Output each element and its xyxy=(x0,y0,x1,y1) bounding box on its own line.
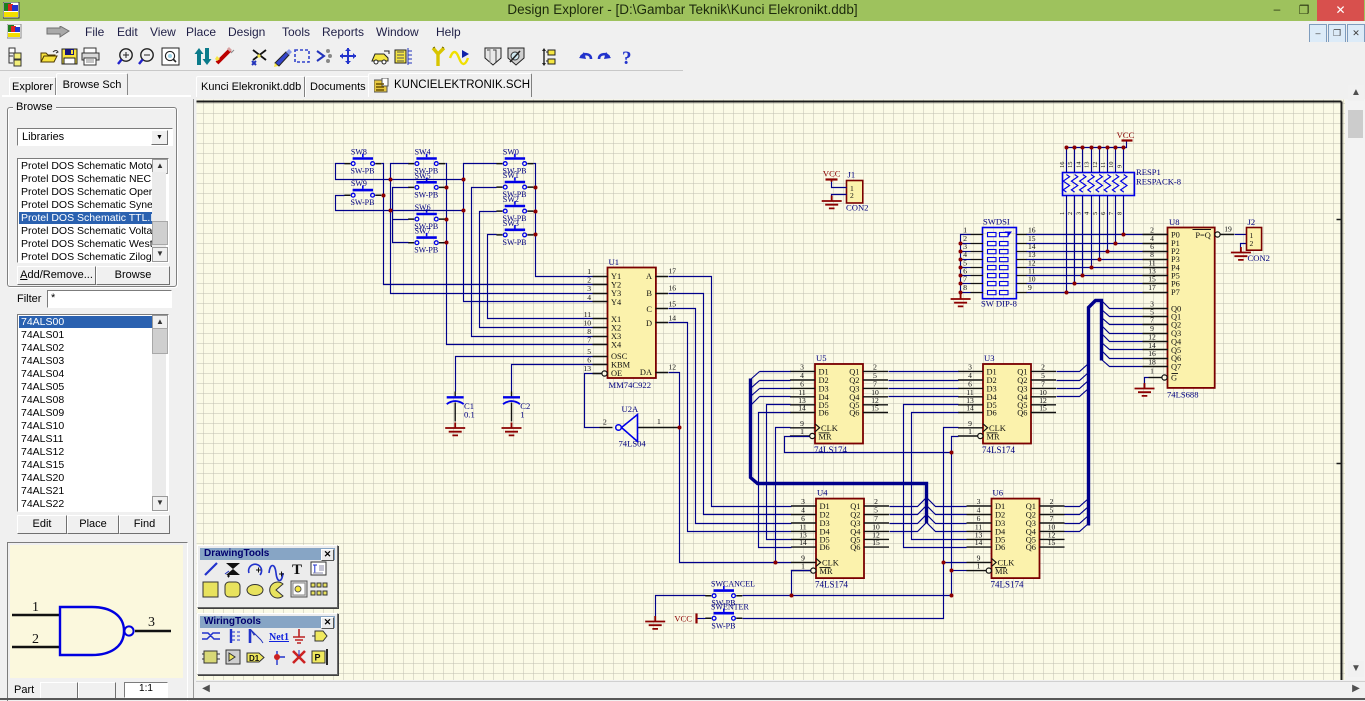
svg-text:8: 8 xyxy=(963,283,967,292)
wire DIP pin3 stub xyxy=(961,251,971,253)
switch SW8 xyxy=(344,148,381,176)
junction P1 pullup xyxy=(1114,242,1118,246)
svg-text:U8: U8 xyxy=(1169,217,1180,227)
svg-text:VCC: VCC xyxy=(674,614,692,624)
wire SW8/SW9 right column down to Y2 xyxy=(382,164,593,285)
sheet border right xyxy=(1341,102,1343,681)
svg-text:RESP1: RESP1 xyxy=(1136,167,1161,177)
wire U5.Q4 to U3.D4 xyxy=(889,396,959,398)
switch SW2 xyxy=(496,195,533,223)
junction P4 pullup xyxy=(1090,266,1094,270)
switch SW3 xyxy=(496,219,533,247)
register U4 74LS174 xyxy=(791,488,889,590)
svg-text:12: 12 xyxy=(1092,162,1099,169)
junction rail pin12 xyxy=(1098,146,1102,150)
wire U3.Q4 to bus xyxy=(1057,389,1089,397)
svg-text:1: 1 xyxy=(657,417,661,426)
keypad encoder U1 MM74C922 xyxy=(583,257,676,390)
svg-text:J2: J2 xyxy=(1248,217,1256,227)
wire RESP1 pin6 down to P2 xyxy=(1107,196,1109,252)
wire RESP1 pin15 to rail xyxy=(1074,148,1076,173)
svg-text:8: 8 xyxy=(1116,212,1123,215)
wire bus entry to U8.Q1 xyxy=(1102,310,1143,317)
wire SWCANCEL left to ground xyxy=(656,596,706,621)
svg-text:14: 14 xyxy=(669,313,677,322)
wire RESP1 pin1 down to P7 xyxy=(1066,196,1068,293)
junction SW2 right xyxy=(534,210,538,214)
svg-text:2: 2 xyxy=(603,417,607,426)
wire U3.Q1 to bus xyxy=(1057,364,1089,372)
switch SW7 xyxy=(408,227,445,255)
switch SW4 xyxy=(408,148,445,176)
svg-text:2: 2 xyxy=(1250,239,1254,248)
wire U8 P=Q to J2 pin1 xyxy=(1235,234,1247,236)
svg-text:U5: U5 xyxy=(816,353,827,363)
junction P5 pullup xyxy=(1081,274,1085,278)
svg-text:SW1: SW1 xyxy=(503,171,519,180)
capacitor C2 xyxy=(503,392,530,422)
component list xyxy=(17,314,169,512)
wire SW3 left down to X1 xyxy=(488,235,593,319)
switch SWCANCEL xyxy=(705,580,755,608)
wire SW1 right stub xyxy=(534,187,536,189)
sheet border top xyxy=(197,101,1342,103)
wire SW1 left down to X3 xyxy=(472,188,593,337)
svg-text:A: A xyxy=(646,272,652,281)
svg-text:13: 13 xyxy=(1084,162,1091,169)
wire SW6 right stub xyxy=(446,219,447,221)
junction DIP pin8 xyxy=(959,291,963,295)
svg-text:MM74C922: MM74C922 xyxy=(609,380,652,390)
wire U8.G to ground xyxy=(1145,378,1149,388)
wire U3.Q3 to bus xyxy=(1057,381,1089,389)
svg-text:X4: X4 xyxy=(611,341,622,350)
svg-text:2: 2 xyxy=(850,191,854,200)
junction DIP pin3 xyxy=(959,250,963,254)
svg-text:17: 17 xyxy=(669,267,677,276)
wire J2 pin2 to ground xyxy=(1241,244,1247,252)
svg-text:9: 9 xyxy=(1116,165,1123,168)
wire U1.DA down to U4.CLK rail xyxy=(669,373,792,563)
svg-text:SWENTER: SWENTER xyxy=(711,603,749,612)
power port VCC at SWENTER xyxy=(674,614,696,624)
svg-text:U4: U4 xyxy=(817,488,828,498)
svg-text:?: ? xyxy=(622,48,632,69)
wire SW5 right stub xyxy=(446,187,447,189)
switch SW9 xyxy=(344,179,381,207)
wire J1 pin2 to ground xyxy=(832,195,847,200)
junction U6.MR on U3 MR column xyxy=(950,569,954,573)
junction P0 pullup xyxy=(1122,233,1126,237)
wire U5.D5 to U4.D5 xyxy=(767,405,792,540)
wire OE loop to U2A input xyxy=(585,374,602,428)
svg-text:74LS688: 74LS688 xyxy=(1167,390,1199,400)
svg-text:SW4: SW4 xyxy=(415,148,431,157)
svg-text:15: 15 xyxy=(1067,162,1074,169)
ground below C2 xyxy=(502,423,522,436)
svg-text:19: 19 xyxy=(1224,225,1232,234)
wire P0 net DIP to U8 xyxy=(1027,234,1143,236)
svg-text:U6: U6 xyxy=(993,488,1004,498)
junction U4.MR on SWCANCEL rail xyxy=(790,594,794,598)
ground below J1 xyxy=(822,196,842,209)
junction U6.CLK on SWENTER column xyxy=(942,561,946,565)
switch SW5 xyxy=(408,171,445,199)
wire RESP1 pin2 down to P6 xyxy=(1074,196,1076,284)
switch SW0 xyxy=(496,148,533,176)
svg-text:16: 16 xyxy=(669,284,677,293)
wire DIP pin2 stub xyxy=(961,243,971,245)
svg-text:CON2: CON2 xyxy=(1248,253,1270,263)
wire bus entry to U8.Q3 xyxy=(1102,326,1143,334)
ground below J2 xyxy=(1231,247,1251,260)
svg-text:P: P xyxy=(315,653,321,663)
junction P3 pullup xyxy=(1098,258,1102,262)
wire U4.Q2 to bus chevron to U6.D2 xyxy=(890,506,967,515)
svg-text:RESPACK-8: RESPACK-8 xyxy=(1136,177,1181,187)
wire DIP common to ground xyxy=(961,235,971,298)
svg-text:0.1: 0.1 xyxy=(464,410,475,420)
wire bus entry to U8.Q5 xyxy=(1102,343,1143,350)
wire DIP pin5 stub xyxy=(961,267,971,269)
svg-text:SW0: SW0 xyxy=(503,148,519,157)
wire U4.Q1 to bus chevron to U6.D1 xyxy=(890,498,967,507)
switch SW1 xyxy=(496,171,533,199)
svg-text:SW8: SW8 xyxy=(351,148,367,157)
wire P3 net xyxy=(1027,259,1143,261)
junction SW9 right xyxy=(382,194,386,198)
wire U1.C down to U4.D3 xyxy=(669,309,792,524)
junction rail1-Y3 xyxy=(389,178,393,182)
svg-text:SW9: SW9 xyxy=(351,179,367,188)
svg-text:Y4: Y4 xyxy=(611,298,622,307)
wire P7 net xyxy=(1027,292,1143,294)
wire U5.CLK branch xyxy=(776,428,791,563)
wire bus entry to U8.Q7 xyxy=(1102,360,1143,367)
wire SW0 right column down to Y1 xyxy=(534,164,593,277)
wire RESP1 pin7 down to P1 xyxy=(1115,196,1117,244)
wire bus entry to U8.Q4 xyxy=(1102,334,1143,342)
register U3 74LS174 xyxy=(958,353,1056,455)
wire RESP1 pin11 to rail xyxy=(1107,148,1109,173)
wire U4.Q3 to bus chevron to U6.D3 xyxy=(890,515,967,524)
wire DIP pin4 stub xyxy=(961,259,971,261)
svg-text:SW DIP-8: SW DIP-8 xyxy=(981,299,1017,309)
Libraries combo xyxy=(17,128,173,146)
junction rail pin16 xyxy=(1065,146,1069,150)
wire P5 net xyxy=(1027,275,1143,277)
svg-text:U1: U1 xyxy=(609,257,620,267)
wire U5.Q3 to U3.D3 xyxy=(889,388,959,390)
bus entry U5.D1 xyxy=(751,372,760,380)
junction DIP pin5 xyxy=(959,266,963,270)
svg-text:D1: D1 xyxy=(249,654,260,663)
wire U1.A down to U4.D1 xyxy=(669,277,792,507)
wire VCC to J1 pin1 xyxy=(832,182,847,188)
junction DIP pin2 xyxy=(959,242,963,246)
svg-text:SW3: SW3 xyxy=(503,219,519,228)
svg-text:OE: OE xyxy=(611,369,622,378)
wire bus entry to U8.Q6 xyxy=(1102,351,1143,359)
wire U1.B down to U4.D2 xyxy=(669,294,792,515)
wire RESP1 pin12 to rail xyxy=(1099,148,1101,173)
svg-text:T: T xyxy=(292,562,302,578)
panel/canvas splitter xyxy=(193,71,197,700)
junction DIP pin7 xyxy=(959,282,963,286)
capacitor C1 xyxy=(447,392,475,422)
wire U5.Q1 to U3.D1 xyxy=(889,371,959,373)
switch SW6 xyxy=(408,203,445,231)
wire SWENTER left to VCC xyxy=(698,618,706,620)
wire RESP1 pin4 down to P4 xyxy=(1091,196,1093,268)
wire OSC to C1 xyxy=(456,357,593,392)
inverter U2A 74LS04 xyxy=(600,404,680,449)
svg-text:VCC: VCC xyxy=(1117,130,1135,140)
wire RESP1 pin9 to rail xyxy=(1123,148,1125,173)
svg-text:2: 2 xyxy=(32,632,39,647)
wire bus to U5.D2 xyxy=(760,380,791,382)
wire SW8 left loop to row rail 1 xyxy=(336,164,464,180)
wire U6.Q4 to bus xyxy=(1065,524,1089,532)
wire DIP pin6 stub xyxy=(961,275,971,277)
connector J1 CON2 xyxy=(846,170,868,213)
comparator U8 74LS688 xyxy=(1143,217,1235,400)
svg-text:VCC: VCC xyxy=(823,168,841,178)
svg-text:1: 1 xyxy=(1150,367,1154,376)
wire U1.D down to U4.D4 xyxy=(669,323,792,532)
svg-text:1: 1 xyxy=(32,600,39,615)
wire U6.MR stub xyxy=(952,570,967,572)
wire VCC rail above RESP1 xyxy=(1067,142,1127,173)
Browse group xyxy=(7,107,177,287)
junction rail pin13 xyxy=(1090,146,1094,150)
junction P6 pullup xyxy=(1073,282,1077,286)
svg-text:16: 16 xyxy=(1059,161,1066,168)
svg-text:SWCANCEL: SWCANCEL xyxy=(711,580,755,589)
connector J2 CON2 xyxy=(1247,217,1270,263)
wire RESP1 pin5 down to P3 xyxy=(1099,196,1101,260)
junction SW1 right xyxy=(534,186,538,190)
junction SW5 right xyxy=(445,186,449,190)
wire U3.MR column xyxy=(952,437,959,596)
resistor network RESP1 RESPACK-8 xyxy=(1059,161,1181,215)
filter xyxy=(17,293,41,305)
junction rail1-Y4 xyxy=(462,178,466,182)
junction U5.CLK column on CLK rail xyxy=(774,561,778,565)
wire SW2 right stub xyxy=(534,211,536,213)
wire U6.Q2 to bus xyxy=(1065,507,1089,515)
svg-text:1: 1 xyxy=(520,410,524,420)
bus entry U5.D3 xyxy=(751,389,760,397)
vertical bus to U8 xyxy=(1089,301,1102,526)
svg-text:U3: U3 xyxy=(984,353,995,363)
switch SWENTER xyxy=(705,603,749,631)
bus entry U5.D4 xyxy=(751,397,760,406)
wire U6.Q1 to bus xyxy=(1065,499,1089,507)
svg-text:1: 1 xyxy=(1059,212,1066,215)
wire U6.Q3 to bus xyxy=(1065,516,1089,524)
junction SW3 right xyxy=(534,233,538,237)
wire DIP pin7 stub xyxy=(961,283,971,285)
bottom partial controls xyxy=(10,681,183,700)
wire P4 net xyxy=(1027,267,1143,269)
wire SW2 left down to X2 xyxy=(480,212,593,328)
wire RESP1 pin8 down to P0 xyxy=(1123,196,1125,235)
wire SW3 right stub xyxy=(534,234,536,236)
svg-text:SW7: SW7 xyxy=(415,227,431,236)
junction rail pin15 xyxy=(1073,146,1077,150)
wire bus to U5.D4 xyxy=(760,396,791,398)
svg-text:18: 18 xyxy=(1148,358,1156,367)
power port VCC above J1 xyxy=(823,168,841,182)
wire SW0 left down to Y4 xyxy=(464,164,593,302)
wire SW7 right stub xyxy=(446,242,447,244)
svg-text:3: 3 xyxy=(148,615,155,630)
svg-text:11: 11 xyxy=(1100,162,1107,168)
svg-text:CON2: CON2 xyxy=(846,203,868,213)
bus from U5 down and right to U6 xyxy=(751,379,927,524)
ground below SWCANCEL wire xyxy=(645,616,665,629)
svg-text:74LS04: 74LS04 xyxy=(619,439,647,449)
wire SW4 right column down to X4 xyxy=(446,164,593,345)
svg-text:P=Q: P=Q xyxy=(1195,231,1210,240)
svg-text:9: 9 xyxy=(1028,283,1032,292)
svg-text:B: B xyxy=(646,289,652,298)
junction DIP pin4 xyxy=(959,258,963,262)
svg-text:15: 15 xyxy=(669,299,677,308)
svg-text:7: 7 xyxy=(587,336,591,345)
wire U3.D5 to U6.D6 xyxy=(904,405,967,548)
junction P2 pullup xyxy=(1106,250,1110,254)
wire SW4 left down to Y3 xyxy=(391,164,593,294)
register U6 74LS174 xyxy=(966,488,1064,590)
wire U4.Q4 to bus chevron to U6.D4 xyxy=(890,523,967,532)
svg-text:DA: DA xyxy=(640,368,652,377)
wire P2 net xyxy=(1027,251,1143,253)
svg-text:J1: J1 xyxy=(848,170,856,180)
power port VCC above RESP1 xyxy=(1117,130,1135,141)
wire bus entry to U8.Q2 xyxy=(1102,318,1143,325)
dip switch SWDSI SW DIP-8 xyxy=(963,217,1036,309)
junction rail pin9 xyxy=(1122,146,1126,150)
svg-text:10: 10 xyxy=(1108,162,1115,169)
wire U5.D6 to U4.D6 xyxy=(759,413,792,548)
junction SW7 right xyxy=(445,241,449,245)
svg-text:U2A: U2A xyxy=(622,404,640,414)
wire DIP pin8 stub xyxy=(961,292,971,294)
wire U3.CLK from SWENTER column xyxy=(743,428,959,619)
bus entry U5.D2 xyxy=(751,381,760,389)
svg-text:5: 5 xyxy=(1092,212,1099,215)
wire RESP1 pin14 to rail xyxy=(1082,148,1084,173)
wire SWCANCEL rail xyxy=(743,595,952,597)
preview pane xyxy=(7,542,188,701)
ground below U8.G xyxy=(1135,383,1155,396)
wire SW9 left loop to row rail 2 xyxy=(336,196,464,211)
svg-text:D: D xyxy=(646,319,652,328)
junction rail pin14 xyxy=(1081,146,1085,150)
junction rail2-Y4 xyxy=(462,209,466,213)
svg-text:3: 3 xyxy=(1075,212,1082,215)
wire P1 net xyxy=(1027,243,1143,245)
svg-text:P7: P7 xyxy=(1171,288,1180,297)
svg-text:17: 17 xyxy=(1148,283,1156,292)
junction U3 MR column on SWCANCEL rail xyxy=(950,594,954,598)
svg-text:14: 14 xyxy=(1075,161,1082,168)
wire RESP1 pin3 down to P5 xyxy=(1082,196,1084,276)
U3 output bus entries xyxy=(1057,364,1089,532)
wire P6 net xyxy=(1027,283,1143,285)
wire bus to U5.D1 xyxy=(760,371,791,373)
wire RESP1 pin10 to rail xyxy=(1115,148,1117,173)
svg-text:SW2: SW2 xyxy=(503,195,519,204)
junction DIP pin6 xyxy=(959,274,963,278)
svg-text:Q7: Q7 xyxy=(1171,363,1181,372)
svg-text:2: 2 xyxy=(1067,212,1074,215)
sheet border zone tick xyxy=(1337,220,1343,464)
svg-text:13: 13 xyxy=(583,364,591,373)
wire U3.D6 to U6.D5 xyxy=(912,413,967,540)
wire U3.Q2 to bus xyxy=(1057,373,1089,381)
svg-text:G: G xyxy=(1171,374,1177,383)
wire U5.Q2 to U3.D2 xyxy=(889,380,959,382)
svg-text:SWDSI: SWDSI xyxy=(983,217,1010,227)
register U5 74LS174 xyxy=(790,353,888,455)
wire bus entry to U8.Q0 xyxy=(1102,301,1143,309)
wire RESP1 pin13 to rail xyxy=(1091,148,1093,173)
junction rail pin11 xyxy=(1106,146,1110,150)
library list xyxy=(17,158,169,263)
junction P7 pullup xyxy=(1065,291,1069,295)
svg-text:12: 12 xyxy=(669,363,677,372)
wire KBM to C2 xyxy=(512,365,593,392)
svg-text:4: 4 xyxy=(587,293,591,302)
junction MR rail at U3 column xyxy=(950,451,954,455)
svg-text:Net1: Net1 xyxy=(269,632,289,643)
junction rail2-Y3 xyxy=(389,209,393,213)
ground below DIP xyxy=(951,294,971,307)
ground below C1 xyxy=(445,423,465,436)
junction rail pin10 xyxy=(1114,146,1118,150)
junction U2A output / DA line xyxy=(678,426,682,430)
junction SW6 right xyxy=(445,218,449,222)
wire U6.CLK stub xyxy=(944,562,967,564)
wire bus to U5.D3 xyxy=(760,388,791,390)
wire U5.MR to MR rail xyxy=(785,437,952,453)
svg-text:C: C xyxy=(646,305,652,314)
wire U4.MR down to SWCANCEL rail xyxy=(792,571,811,596)
wire SW5/SW6/SW7 left chain xyxy=(393,188,409,243)
